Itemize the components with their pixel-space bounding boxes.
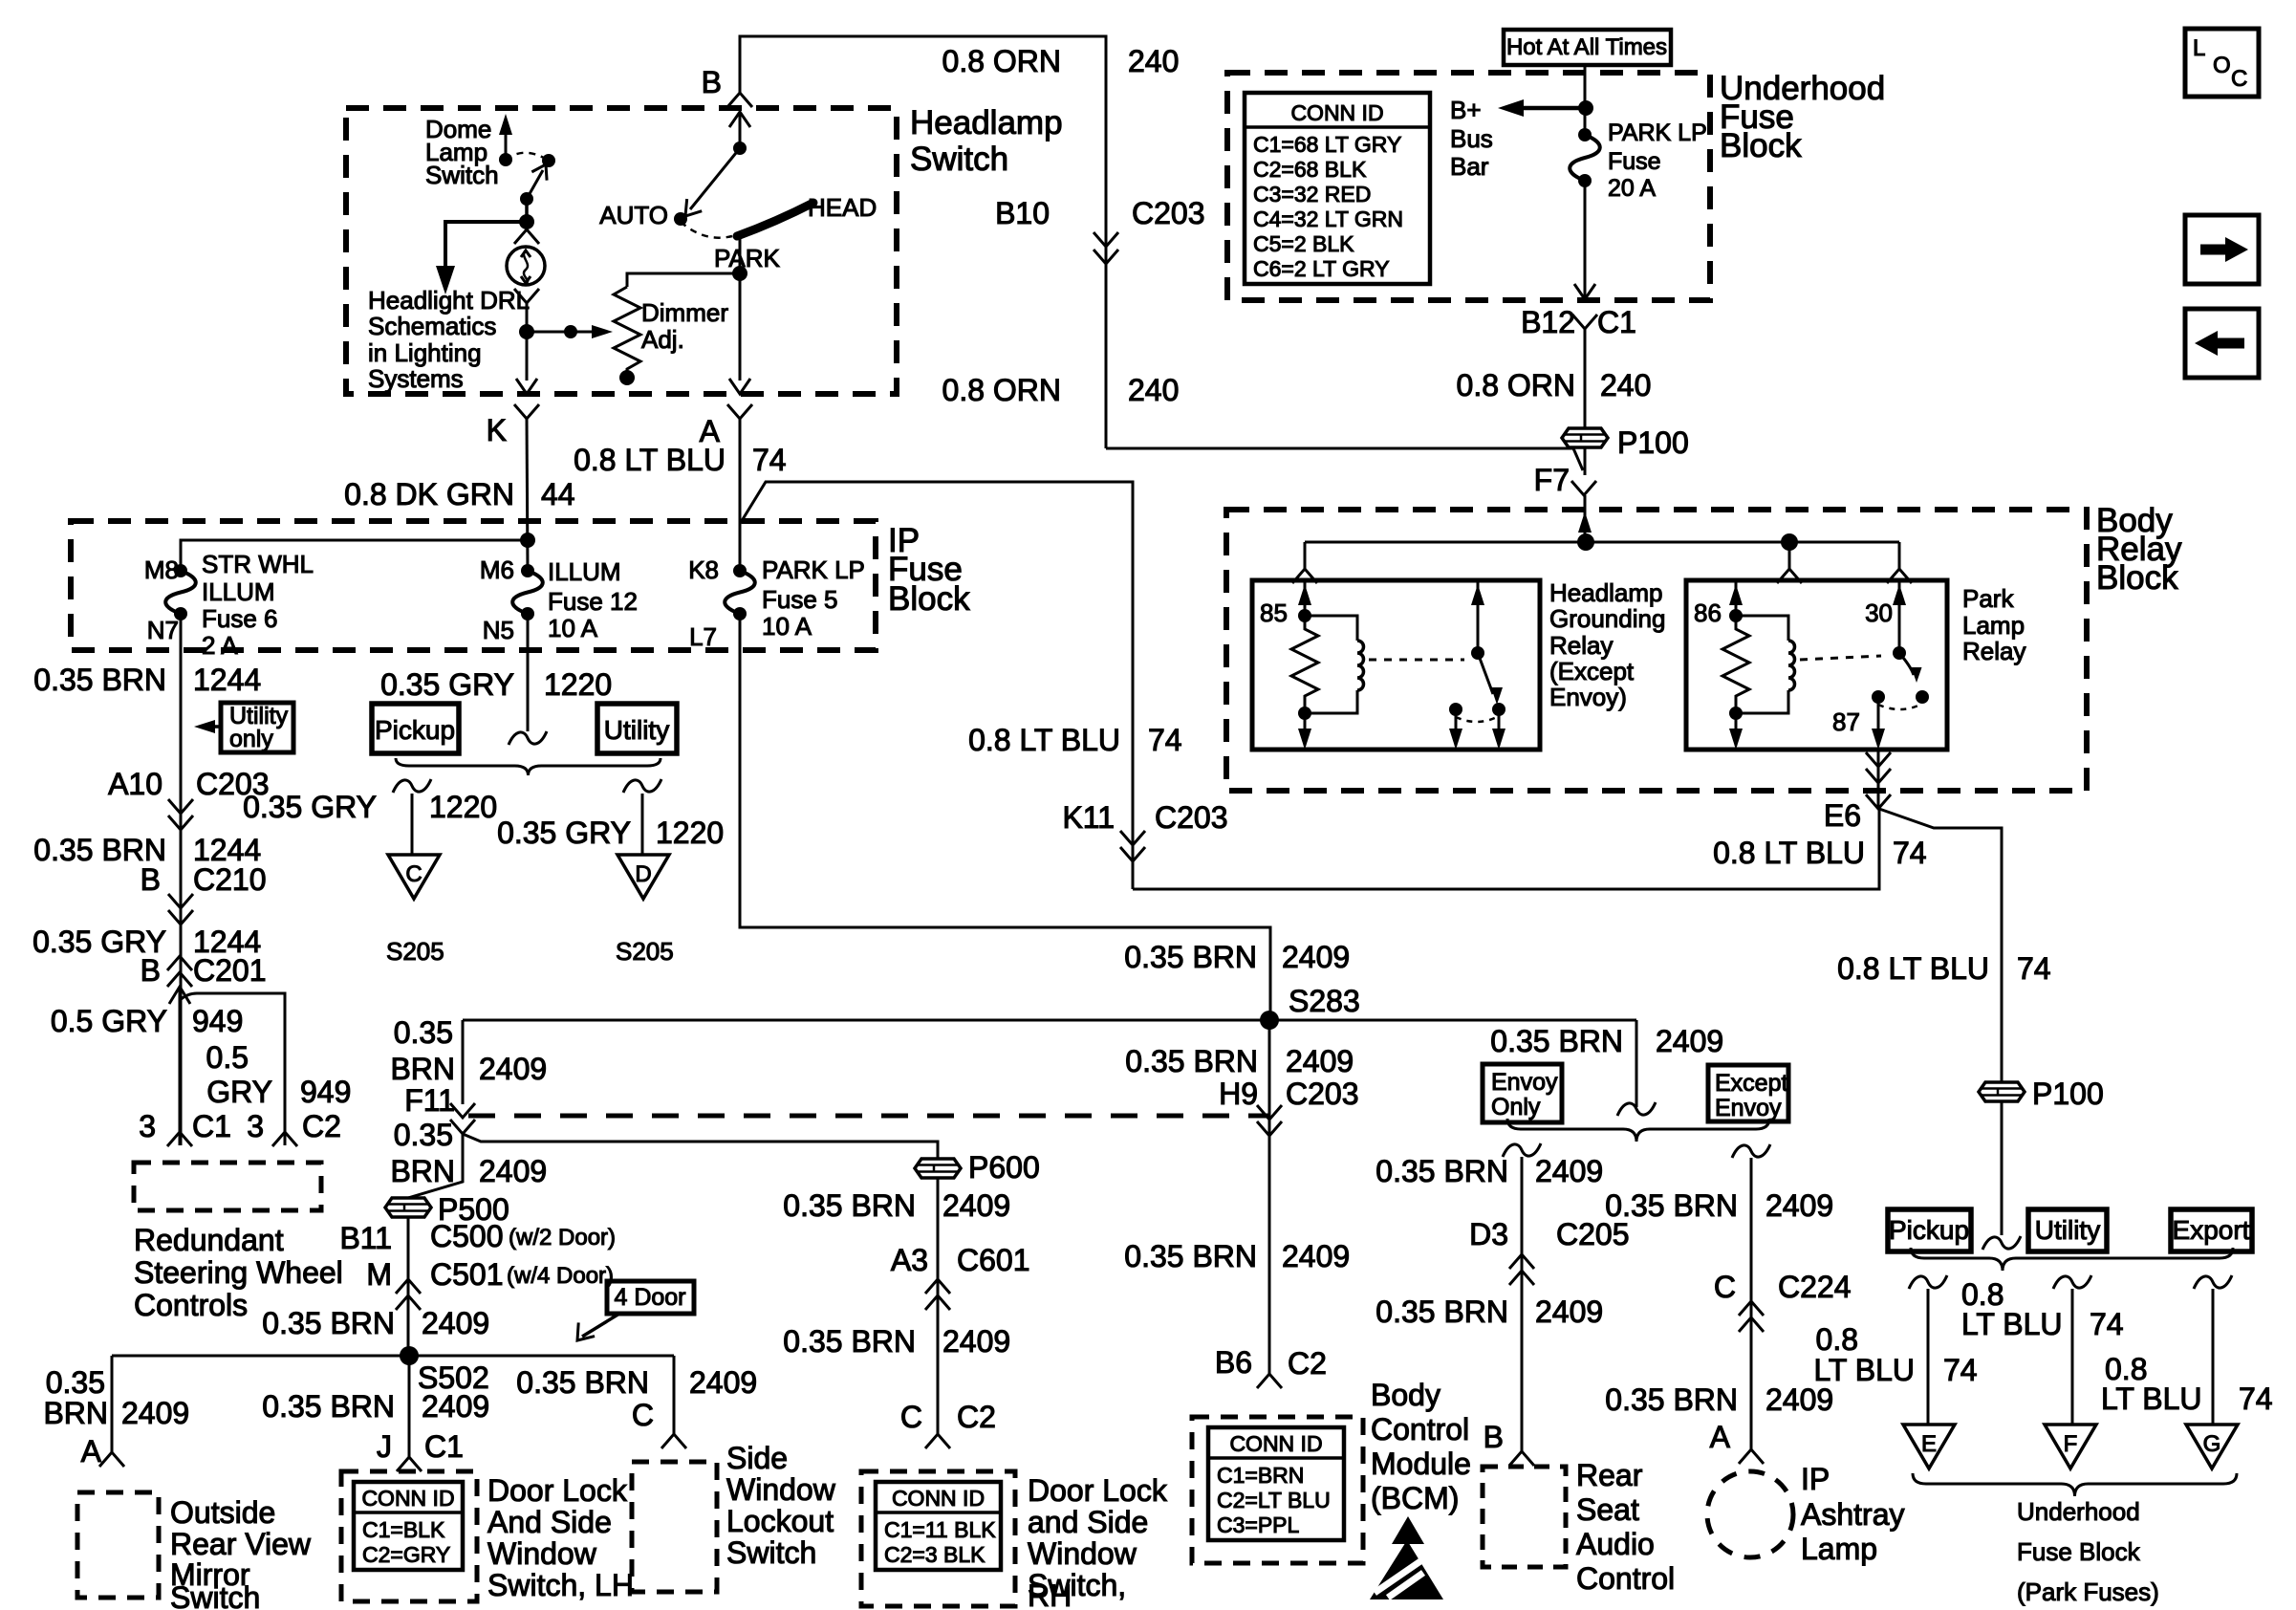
forward arrow box xyxy=(2185,215,2259,284)
pin 85 return lead xyxy=(1298,713,1311,750)
svg-text:B+: B+ xyxy=(1450,96,1482,124)
svg-text:M: M xyxy=(366,1257,392,1292)
label 0.5 GRY 949 (C2) xyxy=(206,1040,352,1109)
svg-text:CONN ID: CONN ID xyxy=(1229,1431,1322,1456)
svg-text:2409: 2409 xyxy=(1535,1295,1603,1329)
svg-text:G: G xyxy=(2203,1431,2221,1457)
label 0.8 DK GRN 44 xyxy=(344,477,574,511)
LOC legend box xyxy=(2185,29,2259,97)
svg-text:Module: Module xyxy=(1371,1447,1471,1481)
svg-text:O: O xyxy=(2213,53,2231,78)
relay coil (left) xyxy=(1298,616,1364,720)
relay coil resistor (left) xyxy=(1291,616,1318,713)
label 0.8 LT BLU 74 (P100) xyxy=(1837,951,2051,986)
svg-text:CONN ID: CONN ID xyxy=(361,1486,454,1511)
svg-text:S283: S283 xyxy=(1289,984,1360,1018)
label 0.5 GRY 949 xyxy=(51,1004,244,1038)
svg-text:Audio: Audio xyxy=(1576,1527,1655,1561)
svg-text:2409: 2409 xyxy=(1765,1188,1833,1223)
labels C500 C501 xyxy=(430,1219,616,1292)
wire bus to pin30 xyxy=(1887,542,1912,583)
svg-text:C601: C601 xyxy=(957,1243,1030,1277)
svg-text:P100: P100 xyxy=(1617,425,1689,460)
wire hot to fuse xyxy=(1584,65,1587,135)
svg-text:Lamp: Lamp xyxy=(1962,611,2025,640)
svg-text:E6: E6 xyxy=(1824,798,1861,833)
utility only tag xyxy=(194,703,293,752)
svg-text:C1=BLK: C1=BLK xyxy=(362,1517,445,1542)
svg-text:Lamp: Lamp xyxy=(1801,1532,1877,1566)
svg-text:PARK LP: PARK LP xyxy=(1608,120,1707,146)
svg-text:C501: C501 xyxy=(430,1257,504,1292)
Except Envoy tag xyxy=(1708,1065,1788,1121)
coil to switch dashed link (right) xyxy=(1800,656,1881,660)
svg-text:0.35: 0.35 xyxy=(394,1015,453,1050)
label redundant steering wheel controls xyxy=(134,1223,343,1322)
coil to switch dashed link (left) xyxy=(1369,659,1464,662)
svg-text:Headlight DRL: Headlight DRL xyxy=(368,286,530,315)
svg-text:B10: B10 xyxy=(995,196,1050,230)
label 0.8 ORN 240 (right) xyxy=(1457,368,1652,402)
svg-text:Switch: Switch xyxy=(910,141,1008,178)
svg-text:1220: 1220 xyxy=(544,667,612,702)
pin 86 lead xyxy=(1729,580,1743,622)
connector B6 C2 xyxy=(1257,1374,1282,1388)
fuse PARK LP 20A xyxy=(1578,128,1592,141)
svg-text:Switch, LH: Switch, LH xyxy=(487,1568,634,1602)
svg-text:Headlamp: Headlamp xyxy=(910,104,1063,141)
label body control module xyxy=(1371,1378,1471,1515)
svg-text:(Except: (Except xyxy=(1549,657,1635,685)
svg-text:Bar: Bar xyxy=(1450,152,1489,181)
svg-text:Window: Window xyxy=(726,1472,836,1507)
svg-text:Steering Wheel: Steering Wheel xyxy=(134,1255,343,1290)
svg-text:0.35: 0.35 xyxy=(46,1365,105,1400)
svg-text:C2: C2 xyxy=(1288,1346,1327,1381)
fuse STR WHL ILLUM xyxy=(174,564,187,577)
svg-text:Adj.: Adj. xyxy=(641,325,684,354)
B+ bus bar arrow xyxy=(1498,99,1593,117)
label Dimmer Adj. xyxy=(641,298,728,354)
svg-text:240: 240 xyxy=(1128,373,1179,407)
svg-text:AUTO: AUTO xyxy=(599,201,668,229)
svg-text:74: 74 xyxy=(1893,836,1927,870)
svg-text:S205: S205 xyxy=(386,937,444,966)
wire S283 to F11 xyxy=(462,1020,465,1104)
label 0.35 BRN 1244 (1) xyxy=(33,663,261,697)
connector K11 C203 xyxy=(1062,800,1227,861)
labels B11 M xyxy=(339,1221,392,1292)
CONN ID table (underhood) xyxy=(1245,93,1430,284)
label B+ Bus Bar xyxy=(1450,96,1493,181)
svg-text:0.5: 0.5 xyxy=(206,1040,249,1075)
label headlamp grounding relay xyxy=(1549,578,1665,711)
wire S283 to envoy split xyxy=(1635,1020,1638,1107)
svg-text:0.35: 0.35 xyxy=(394,1118,453,1152)
label 0.35 BRN 2409 (S502 feed) xyxy=(262,1306,489,1340)
svg-text:Fuse Block: Fuse Block xyxy=(2017,1537,2141,1566)
dimmer bottom dot xyxy=(619,370,635,385)
relay feed bus xyxy=(1305,533,1899,551)
label 0.35 BRN 2409 (lockout) xyxy=(516,1365,757,1400)
svg-text:Park: Park xyxy=(1962,584,2014,613)
relay contacts (left) xyxy=(1449,703,1505,722)
svg-text:Controls: Controls xyxy=(134,1288,248,1322)
labels K8 L7 xyxy=(688,555,719,651)
svg-text:C: C xyxy=(1714,1270,1736,1304)
svg-text:C: C xyxy=(632,1398,654,1432)
illumination lamp xyxy=(507,247,545,285)
pass-through grommet P500 xyxy=(385,1198,431,1217)
pin B xyxy=(702,65,752,107)
svg-text:C6=2 LT GRY: C6=2 LT GRY xyxy=(1253,256,1390,281)
wire to ashtray lamp xyxy=(1732,1144,1770,1449)
dashed throw AUTO-PARK xyxy=(681,222,732,238)
svg-text:1220: 1220 xyxy=(656,816,724,850)
svg-text:P100: P100 xyxy=(2032,1077,2104,1111)
svg-text:10 A: 10 A xyxy=(762,612,812,641)
svg-text:B: B xyxy=(702,65,722,99)
svg-text:A: A xyxy=(81,1434,102,1469)
svg-text:(w/4 Door): (w/4 Door) xyxy=(507,1263,614,1289)
svg-text:C5=2 BLK: C5=2 BLK xyxy=(1253,231,1354,256)
C203 boundary dashed line xyxy=(468,1114,1269,1119)
svg-text:C1: C1 xyxy=(1597,305,1636,339)
label PARK LP Fuse 5 10A xyxy=(762,555,865,641)
connector B12 C1 xyxy=(1521,305,1636,339)
svg-text:2409: 2409 xyxy=(1765,1382,1833,1417)
S502 bus xyxy=(112,1355,674,1358)
svg-text:74: 74 xyxy=(1943,1353,1978,1387)
pass-through grommet P100 (lower) xyxy=(1979,1082,2025,1101)
label 0.35 BRN 2409 (split) xyxy=(1490,1024,1723,1058)
svg-text:PARK: PARK xyxy=(714,244,781,272)
svg-text:2409: 2409 xyxy=(1286,1044,1354,1078)
svg-text:10 A: 10 A xyxy=(548,614,598,642)
svg-text:M6: M6 xyxy=(480,555,514,584)
svg-text:Utility: Utility xyxy=(2035,1215,2100,1245)
label IP ashtray lamp xyxy=(1801,1462,1904,1566)
svg-text:C203: C203 xyxy=(1155,800,1228,835)
pin chevrons steering xyxy=(167,1132,297,1146)
svg-text:P600: P600 xyxy=(968,1150,1040,1185)
svg-text:C210: C210 xyxy=(193,862,267,897)
svg-text:0.8 ORN: 0.8 ORN xyxy=(1457,368,1575,402)
pin 85 lead xyxy=(1298,580,1311,622)
wire bus to pin85 xyxy=(1292,542,1317,583)
label 0.8 LT BLU 74 (E) xyxy=(1813,1322,1977,1387)
svg-text:B: B xyxy=(141,862,161,897)
labels M6 N5 xyxy=(480,555,514,644)
label 0.35 GRY 1220 xyxy=(380,667,612,702)
svg-text:in Lighting: in Lighting xyxy=(368,338,482,367)
fuse ILLUM 12 xyxy=(521,564,534,577)
label Pickup box (S205) xyxy=(372,704,459,753)
pin 86 return lead xyxy=(1729,713,1743,750)
label side window lockout switch xyxy=(726,1441,836,1570)
svg-text:C1=BRN: C1=BRN xyxy=(1217,1463,1304,1488)
svg-text:74: 74 xyxy=(1148,723,1182,757)
splice S502 xyxy=(400,1346,419,1365)
4 Door tag xyxy=(570,1281,694,1347)
wire to steering controls xyxy=(169,987,190,1145)
svg-text:0.35 BRN: 0.35 BRN xyxy=(1490,1024,1623,1058)
svg-text:Switch: Switch xyxy=(425,161,499,189)
labels C C2 xyxy=(900,1400,996,1434)
pin A xyxy=(700,404,752,448)
label 0.35 BRN 2409 (RH) xyxy=(783,1324,1010,1359)
svg-text:Relay: Relay xyxy=(1549,631,1613,660)
svg-text:0.8 ORN: 0.8 ORN xyxy=(942,373,1061,407)
svg-text:ILLUM: ILLUM xyxy=(548,557,621,586)
svg-text:2409: 2409 xyxy=(689,1365,757,1400)
IP ashtray lamp dashed circle xyxy=(1707,1471,1793,1557)
label 0.8 LT BLU 74 (riser) xyxy=(968,723,1182,757)
label Underhood Fuse Block xyxy=(1720,70,1885,164)
label 0.8 ORN 240 (top) xyxy=(942,44,1180,78)
connector H9 C203 xyxy=(1257,1105,1282,1136)
svg-text:BRN: BRN xyxy=(390,1052,455,1086)
wire lamp to K xyxy=(516,303,537,394)
relay switch common (left) xyxy=(1471,580,1484,660)
wire to fuse G xyxy=(2194,1275,2232,1425)
wire L7 to S283 xyxy=(740,614,1270,1020)
dome switch dashed throw xyxy=(506,153,549,161)
wire PARK to A xyxy=(729,236,750,394)
label underhood fuse block park fuses xyxy=(2017,1497,2159,1606)
svg-text:0.35 BRN: 0.35 BRN xyxy=(1605,1382,1738,1417)
svg-text:0.5 GRY: 0.5 GRY xyxy=(51,1004,167,1038)
svg-text:Outside: Outside xyxy=(170,1495,275,1530)
label 0.35 GRY 1244 xyxy=(32,925,261,959)
svg-text:(Park Fuses): (Park Fuses) xyxy=(2017,1577,2159,1606)
label 0.35 GRY 1220 (D) xyxy=(497,816,724,850)
svg-text:K: K xyxy=(487,413,507,447)
svg-text:2409: 2409 xyxy=(422,1389,489,1424)
svg-text:Export: Export xyxy=(2173,1215,2250,1245)
wire A to K8 xyxy=(739,419,742,571)
svg-text:44: 44 xyxy=(541,477,575,511)
svg-text:2409: 2409 xyxy=(1282,1239,1350,1273)
connector ashtray A xyxy=(1739,1449,1764,1464)
svg-text:Door Lock: Door Lock xyxy=(1028,1473,1168,1508)
harness split tilde (P100) xyxy=(1982,1236,2021,1250)
svg-text:HEAD: HEAD xyxy=(808,193,877,222)
connector D3 C205 xyxy=(1509,1254,1534,1285)
terminal D xyxy=(617,855,669,899)
svg-text:M8: M8 xyxy=(144,555,179,584)
svg-text:C1: C1 xyxy=(424,1429,464,1464)
label 0.35 BRN 2409 (F11) xyxy=(390,1015,547,1086)
label ILLUM Fuse 12 10A xyxy=(548,557,638,642)
wire E6 down-left run xyxy=(1133,809,1879,889)
svg-text:86: 86 xyxy=(1694,598,1722,627)
labels H9 C203 xyxy=(1219,1077,1358,1111)
svg-text:1244: 1244 xyxy=(193,663,261,697)
svg-text:PARK LP: PARK LP xyxy=(762,555,865,584)
wire dome arm junction xyxy=(519,199,534,229)
svg-text:GRY: GRY xyxy=(206,1075,272,1109)
contact leads (left) xyxy=(1449,709,1505,750)
svg-text:0.8 LT BLU: 0.8 LT BLU xyxy=(1713,836,1865,870)
label Export box xyxy=(2171,1209,2252,1251)
svg-text:Fuse 6: Fuse 6 xyxy=(202,604,278,633)
dimmer feed xyxy=(627,273,740,287)
label 0.8 LT BLU 74 (E6) xyxy=(1713,836,1927,870)
svg-text:Fuse: Fuse xyxy=(1608,148,1661,175)
svg-text:C2: C2 xyxy=(302,1109,341,1143)
svg-text:Relay: Relay xyxy=(1962,637,2025,665)
svg-text:C2=68 BLK: C2=68 BLK xyxy=(1253,157,1367,182)
connector B C201 xyxy=(141,953,267,988)
svg-text:J: J xyxy=(377,1429,392,1464)
connector B10 C203 xyxy=(995,196,1204,264)
svg-text:C1=11 BLK: C1=11 BLK xyxy=(884,1517,996,1542)
wire S283 to BCM xyxy=(1268,1020,1271,1374)
svg-text:C203: C203 xyxy=(1132,196,1205,230)
svg-text:74: 74 xyxy=(2017,951,2051,986)
label 0.8 ORN 240 (lower) xyxy=(942,373,1180,407)
S283 bus xyxy=(463,1019,1636,1022)
svg-text:Fuse 5: Fuse 5 xyxy=(762,585,838,614)
svg-text:C1=68 LT GRY: C1=68 LT GRY xyxy=(1253,132,1401,157)
connector A3 C601 xyxy=(925,1279,950,1310)
relay coil (right) xyxy=(1729,616,1795,720)
relay U1 box (headlamp grounding) xyxy=(1252,580,1540,750)
CONN ID table (door lock RH) xyxy=(876,1482,1001,1570)
svg-text:0.35 BRN: 0.35 BRN xyxy=(1124,940,1257,974)
label rear seat audio control xyxy=(1576,1458,1675,1596)
svg-text:0.35 BRN: 0.35 BRN xyxy=(783,1188,916,1223)
dimmer resistor xyxy=(614,287,640,373)
svg-text:Only: Only xyxy=(1491,1094,1541,1120)
wire to C xyxy=(393,779,431,855)
svg-text:BRN: BRN xyxy=(390,1154,455,1188)
fuse feed bus xyxy=(181,533,535,571)
svg-text:Pickup: Pickup xyxy=(1889,1215,1969,1245)
labels C C224 xyxy=(1714,1270,1852,1304)
label 0.35 GRY 1220 (C) xyxy=(243,790,497,824)
relay switch arm (left) xyxy=(1478,653,1503,705)
svg-text:85: 85 xyxy=(1260,598,1288,627)
label outside rear view mirror switch xyxy=(170,1495,312,1610)
svg-text:F7: F7 xyxy=(1534,463,1570,497)
dome lamp switch label xyxy=(425,115,499,189)
svg-text:2409: 2409 xyxy=(1656,1024,1723,1058)
label 0.35 BRN 2409 (mirror) xyxy=(43,1365,189,1430)
wire B10 to F7 xyxy=(1106,448,1583,470)
svg-text:CONN ID: CONN ID xyxy=(892,1486,985,1511)
relay U2 box (park lamp) xyxy=(1686,580,1947,750)
dome lamp feed arrow xyxy=(499,114,512,166)
svg-text:2409: 2409 xyxy=(479,1154,547,1188)
svg-text:Switch: Switch xyxy=(726,1535,816,1570)
svg-text:Body: Body xyxy=(1371,1378,1440,1412)
connector A10 C203 xyxy=(108,767,269,830)
Envoy Only tag xyxy=(1483,1064,1562,1122)
svg-text:F11: F11 xyxy=(404,1083,455,1118)
split brace (1220) xyxy=(396,758,661,775)
wire to D xyxy=(623,779,661,855)
svg-text:0.35 BRN: 0.35 BRN xyxy=(1125,1044,1258,1078)
terminal F xyxy=(2045,1425,2096,1469)
svg-text:3: 3 xyxy=(139,1109,156,1143)
label 0.35 BRN 2409 (S283 feed) xyxy=(1124,940,1350,974)
side window lockout switch box xyxy=(632,1462,717,1592)
svg-text:0.8 LT BLU: 0.8 LT BLU xyxy=(968,723,1120,757)
svg-text:2 A: 2 A xyxy=(202,631,238,660)
svg-text:A10: A10 xyxy=(108,767,162,801)
svg-text:0.35 BRN: 0.35 BRN xyxy=(1605,1188,1738,1223)
svg-text:Utility: Utility xyxy=(604,715,669,745)
label Headlamp Switch xyxy=(910,104,1063,178)
svg-text:2409: 2409 xyxy=(479,1052,547,1086)
label Body Relay Block xyxy=(2096,502,2182,597)
label 0.35 BRN 2409 (P600) xyxy=(783,1188,1010,1223)
svg-text:Block: Block xyxy=(2096,559,2178,597)
svg-text:Lockout: Lockout xyxy=(726,1504,834,1538)
label 0.8 LT BLU 74 (G) xyxy=(2101,1352,2273,1416)
connector C500/C501 xyxy=(396,1279,421,1310)
label 0.35 BRN 2409 (H9) xyxy=(1125,1044,1354,1078)
svg-text:C2: C2 xyxy=(957,1400,996,1434)
wire E6 to P100 xyxy=(1879,809,2002,1235)
svg-text:0.8: 0.8 xyxy=(1816,1322,1858,1357)
pass-through grommet P100 (upper) xyxy=(1562,428,1608,447)
pin 30 lead xyxy=(1893,580,1906,660)
label IP Fuse Block xyxy=(888,522,970,618)
svg-text:0.35 BRN: 0.35 BRN xyxy=(1375,1295,1508,1329)
svg-text:Envoy: Envoy xyxy=(1491,1069,1558,1096)
svg-text:Block: Block xyxy=(1720,127,1802,164)
wire K to fuse block xyxy=(527,419,528,571)
wire F11 to P500 xyxy=(408,1134,463,1356)
svg-text:E: E xyxy=(1921,1431,1937,1457)
relay coil resistor (right) xyxy=(1722,616,1749,713)
svg-text:Control: Control xyxy=(1576,1561,1675,1596)
wire fuse to block edge xyxy=(1574,181,1595,299)
svg-text:Rear: Rear xyxy=(1576,1458,1643,1492)
svg-text:74: 74 xyxy=(752,443,787,477)
svg-text:C224: C224 xyxy=(1778,1270,1852,1304)
svg-text:Underhood: Underhood xyxy=(2017,1497,2140,1526)
svg-text:Bus: Bus xyxy=(1450,124,1493,153)
connector lockout C xyxy=(661,1434,686,1448)
svg-text:RH: RH xyxy=(1028,1578,1072,1610)
dimmer wiper arrow xyxy=(527,325,613,338)
label STR WHL ILLUM Fuse 6 2A xyxy=(202,550,314,660)
switch arm B-AUTO xyxy=(678,148,740,222)
svg-text:ILLUM: ILLUM xyxy=(202,577,275,606)
svg-text:K8: K8 xyxy=(688,555,719,584)
label 0.35 BRN 2409 (rear audio) xyxy=(1375,1295,1603,1329)
fuse PARK LP 5 xyxy=(733,564,747,577)
IP fuse block dashed box xyxy=(71,521,876,650)
svg-text:B12: B12 xyxy=(1521,305,1575,339)
svg-text:87: 87 xyxy=(1832,707,1860,736)
labels D3 C205 xyxy=(1469,1217,1629,1251)
svg-text:C203: C203 xyxy=(1286,1077,1359,1111)
svg-text:Systems: Systems xyxy=(368,364,464,393)
svg-text:0.35 BRN: 0.35 BRN xyxy=(516,1365,649,1400)
rear seat audio dashed box xyxy=(1483,1467,1566,1567)
HEAD-PARK thick arc xyxy=(737,203,813,236)
svg-text:0.35 GRY: 0.35 GRY xyxy=(380,667,514,702)
svg-text:Dimmer: Dimmer xyxy=(641,298,728,327)
svg-text:Door Lock: Door Lock xyxy=(487,1473,628,1508)
labels M8 N7 xyxy=(144,555,179,644)
svg-text:A3: A3 xyxy=(891,1243,928,1277)
